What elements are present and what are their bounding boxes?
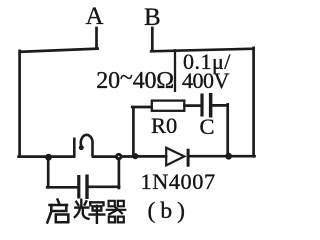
wire bus starter-to-ring segment — [93, 155, 116, 158]
wire bus diode cathode segment — [189, 155, 229, 158]
resistor R0 body — [152, 101, 185, 111]
node label B — [144, 4, 161, 32]
wire inner-loop right vertical — [226, 104, 229, 155]
wire starter-capacitor right rise — [118, 159, 121, 189]
junction dot left (starter/capacitor tap) — [45, 154, 52, 161]
value label 0.1μ/ — [183, 49, 231, 75]
wire stub below B wire — [174, 50, 176, 91]
wire B horizontal — [151, 49, 253, 52]
starter S curved bimetal electrode — [81, 135, 93, 157]
wire left edge vertical — [18, 51, 21, 157]
wire R0-to-C lead — [185, 104, 201, 107]
wire bottom bus left segment — [19, 155, 74, 158]
wire R0 left lead — [132, 106, 151, 109]
wire inner-loop left vertical — [132, 108, 135, 156]
junction ring right starter terminal — [116, 154, 121, 159]
wire starter-capacitor left drop — [47, 158, 50, 187]
wire bus ring-to-junction segment — [122, 155, 136, 158]
wire bus diode anode segment — [135, 155, 166, 158]
starter S contact blob — [79, 145, 84, 150]
glyph 器 — [107, 201, 126, 223]
wire bus right segment — [229, 155, 255, 158]
node B lead — [151, 28, 154, 51]
junction dot inner-loop right — [225, 153, 232, 160]
part label 1N4007 — [141, 169, 216, 195]
diode D 1N4007 cathode bar — [187, 149, 190, 167]
wire right edge vertical — [252, 48, 255, 157]
diode D 1N4007 triangle — [166, 148, 184, 166]
value label 20~40Ω — [96, 68, 174, 95]
node label A — [86, 3, 104, 31]
junction dot inner-loop left — [132, 153, 138, 159]
ref label R0 — [151, 113, 177, 139]
caption (b) — [148, 198, 190, 225]
ref label C — [200, 114, 215, 140]
value label 400V — [182, 68, 229, 94]
starter capacitor left plate — [77, 175, 80, 199]
glyph 启 — [47, 200, 68, 223]
starter capacitor right plate — [85, 175, 88, 200]
capacitor C right plate — [209, 93, 213, 118]
wire C right lead — [212, 104, 227, 107]
wire starter-capacitor bottom left — [47, 186, 77, 189]
starter S left electrode — [73, 138, 76, 157]
wire starter-capacitor bottom right — [89, 185, 120, 188]
wire A horizontal — [20, 49, 98, 52]
capacitor C left plate — [200, 94, 203, 117]
glyph 辉 — [75, 200, 105, 223]
node A lead — [95, 28, 98, 48]
